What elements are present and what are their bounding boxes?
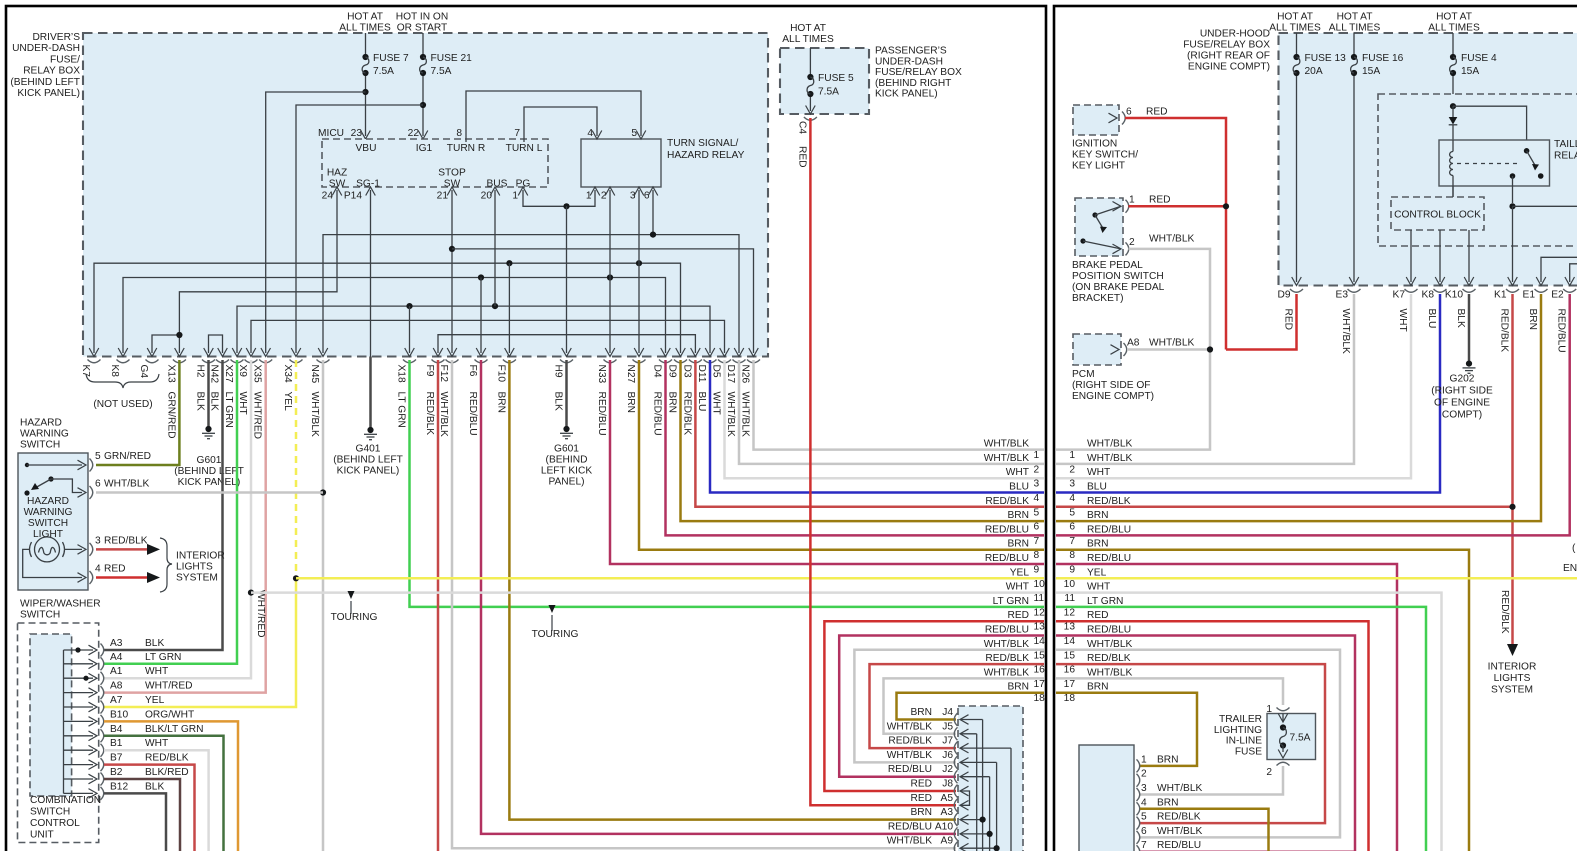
svg-text:J7: J7 bbox=[942, 736, 953, 747]
svg-text:7.5A: 7.5A bbox=[818, 87, 839, 98]
svg-text:N33: N33 bbox=[596, 365, 607, 384]
pin D11 connector bbox=[696, 360, 717, 412]
svg-text:TRAILER: TRAILER bbox=[1219, 714, 1262, 725]
svg-text:A7: A7 bbox=[110, 695, 123, 706]
wire 16 label (left panel) bbox=[985, 653, 1045, 676]
wire 10 YEL to right edge bbox=[296, 577, 1044, 580]
wire F12 WHT/BLK to trailer A9 bbox=[452, 360, 956, 848]
wire N33 RED/BLU to wire 9 bbox=[610, 360, 1044, 564]
wire F6 RED/BLU to trailer A10 bbox=[481, 360, 956, 834]
pin K7 connector bbox=[80, 360, 101, 378]
junction ignition/brake RED bbox=[1223, 203, 1229, 209]
MICU pin 24 HAZ SW bbox=[322, 168, 348, 202]
trailer lighting in-line fuse bbox=[1214, 704, 1316, 778]
svg-text:18: 18 bbox=[1064, 693, 1076, 704]
wire 16 RED/BLK to trailer J7 bbox=[870, 664, 1045, 748]
hazard warning switch light label bbox=[24, 496, 73, 540]
svg-text:ALL TIMES: ALL TIMES bbox=[782, 34, 834, 45]
svg-text:BRN: BRN bbox=[1157, 797, 1179, 808]
wire B7 RED/BLK down bbox=[104, 765, 195, 851]
wire 9 label (left panel) bbox=[985, 553, 1040, 576]
svg-text:X13: X13 bbox=[165, 365, 176, 383]
svg-text:WHT/BLK: WHT/BLK bbox=[1149, 338, 1194, 349]
wire E1 BRN to wire 6 bbox=[1056, 294, 1541, 521]
svg-text:IN-LINE: IN-LINE bbox=[1226, 736, 1262, 747]
svg-text:RED/BLK: RED/BLK bbox=[424, 392, 435, 436]
PCM box bbox=[1072, 334, 1194, 402]
svg-text:WHT/BLK: WHT/BLK bbox=[887, 836, 932, 847]
relay pin 4 bbox=[587, 128, 601, 139]
svg-text:WHT/BLK: WHT/BLK bbox=[1157, 826, 1202, 837]
svg-text:WHT/BLK: WHT/BLK bbox=[984, 639, 1029, 650]
svg-text:HOT AT: HOT AT bbox=[1277, 12, 1313, 23]
pin C4 connector bbox=[797, 117, 817, 168]
svg-text:X34: X34 bbox=[282, 365, 293, 383]
MICU pin 8 TURN R bbox=[447, 128, 485, 154]
svg-text:HOT IN ON: HOT IN ON bbox=[396, 12, 448, 23]
svg-text:BLK: BLK bbox=[145, 638, 164, 649]
svg-text:FUSE 13: FUSE 13 bbox=[1305, 53, 1347, 64]
wiper/washer switch bbox=[18, 599, 101, 843]
wire B1 WHT down bbox=[104, 750, 209, 851]
fuse 7 7.5A bbox=[361, 33, 409, 139]
wire 14 label (right panel) bbox=[1064, 625, 1132, 648]
svg-text:CONTROL: CONTROL bbox=[30, 818, 80, 829]
svg-text:J5: J5 bbox=[942, 721, 953, 732]
bus line D (K8-F6-N33-D4) bbox=[118, 190, 670, 357]
connector pin 1 bbox=[1137, 754, 1179, 772]
svg-text:OR START: OR START bbox=[397, 23, 448, 34]
trailer pin J4 BRN bbox=[910, 707, 957, 726]
svg-text:B10: B10 bbox=[110, 709, 128, 720]
svg-text:BRN: BRN bbox=[625, 392, 636, 414]
wire 4 label (right panel) bbox=[1069, 482, 1107, 505]
svg-text:BLK: BLK bbox=[195, 392, 206, 411]
svg-text:RED/BLU: RED/BLU bbox=[1157, 840, 1201, 851]
pin K10 connector bbox=[1445, 289, 1476, 328]
svg-text:KICK PANEL): KICK PANEL) bbox=[17, 88, 80, 99]
svg-text:GRN/RED: GRN/RED bbox=[104, 451, 151, 462]
svg-text:20: 20 bbox=[481, 191, 493, 202]
svg-text:D17: D17 bbox=[725, 365, 736, 384]
svg-text:ENGINE COMPT): ENGINE COMPT) bbox=[1188, 62, 1270, 73]
HOT IN ON OR START label (fuse 21) bbox=[396, 12, 448, 34]
wire 15 label (left panel) bbox=[984, 639, 1045, 662]
wire B2 BLK/RED down bbox=[104, 779, 180, 851]
wire fuse4 to relay switch bbox=[1453, 106, 1527, 151]
svg-text:KEY SWITCH/: KEY SWITCH/ bbox=[1072, 150, 1138, 161]
svg-text:17: 17 bbox=[1064, 679, 1076, 690]
svg-text:WHT/BLK: WHT/BLK bbox=[984, 439, 1029, 450]
wire H9 BLK to G601 bbox=[565, 360, 568, 429]
relay pin 2 bbox=[601, 187, 615, 202]
connector pin 6 bbox=[1137, 826, 1203, 844]
pin X35 connector bbox=[252, 360, 273, 440]
wire 10 YEL across bbox=[1056, 577, 1577, 580]
wire 11 label (right panel) bbox=[1064, 582, 1110, 605]
wire 18 BRN to connector pin 1 bbox=[1056, 693, 1197, 766]
trailer pin A9 WHT/BLK bbox=[887, 836, 958, 851]
control block pin K8 drop bbox=[1435, 230, 1445, 286]
interior lights system label (right) bbox=[1488, 662, 1537, 696]
wire H9 drop bbox=[562, 206, 572, 356]
svg-text:1: 1 bbox=[512, 191, 518, 202]
wire 17 WHT/BLK to trailer J5 bbox=[884, 678, 1045, 733]
trailer pin J5 WHT/BLK bbox=[887, 721, 958, 740]
svg-text:K7: K7 bbox=[1393, 290, 1406, 301]
wire N45 WHT/BLK down off page bbox=[322, 360, 325, 851]
wire E2 RED/BLU to wire 7 bbox=[1056, 294, 1570, 535]
svg-text:WHT: WHT bbox=[145, 666, 168, 677]
wire 17 label (right panel) bbox=[1064, 667, 1133, 690]
svg-text:9: 9 bbox=[1069, 565, 1075, 576]
wire 9 RED/BLU down off page bbox=[1056, 564, 1397, 851]
wire 15 label (right panel) bbox=[1064, 639, 1133, 662]
svg-text:B12: B12 bbox=[110, 781, 128, 792]
pin K7 connector bbox=[1393, 289, 1418, 332]
trailer pin name J7 bbox=[942, 736, 953, 747]
wire 14 label (left panel) bbox=[985, 625, 1045, 648]
hazard warning switch S1 bbox=[18, 418, 88, 591]
svg-text:A4: A4 bbox=[110, 652, 123, 663]
svg-text:RED/BLU: RED/BLU bbox=[985, 625, 1029, 636]
svg-text:FUSE/RELAY BOX: FUSE/RELAY BOX bbox=[1183, 40, 1270, 51]
svg-text:RED/BLU: RED/BLU bbox=[1556, 309, 1567, 353]
svg-text:N45: N45 bbox=[309, 365, 320, 384]
trailer lighting connector box (left panel) bbox=[958, 706, 1023, 851]
pin N26 connector bbox=[740, 360, 761, 437]
svg-text:3: 3 bbox=[1141, 783, 1147, 794]
svg-text:7: 7 bbox=[514, 128, 520, 139]
wire 11 label (left panel) bbox=[1006, 582, 1045, 605]
wire E2 from right edge bbox=[1565, 264, 1577, 286]
relay pin 5 bbox=[631, 128, 645, 139]
svg-text:J2: J2 bbox=[942, 764, 953, 775]
control block pin K10 drop bbox=[1464, 230, 1474, 286]
svg-text:RED/BLK: RED/BLK bbox=[1087, 496, 1131, 507]
MICU pin 7 TURN L bbox=[506, 128, 543, 154]
svg-text:A10: A10 bbox=[935, 821, 953, 832]
MICU box bbox=[318, 128, 548, 187]
svg-text:WHT/BLK: WHT/BLK bbox=[1087, 667, 1132, 678]
svg-text:BLU: BLU bbox=[1087, 482, 1107, 493]
svg-text:RED/BLK: RED/BLK bbox=[145, 753, 189, 764]
svg-text:K1: K1 bbox=[1494, 290, 1507, 301]
brake pedal position switch bbox=[1072, 195, 1194, 305]
svg-text:A5: A5 bbox=[941, 793, 954, 804]
wire 15 WHT/BLK to connector pin 6 bbox=[1056, 650, 1340, 838]
svg-text:16: 16 bbox=[1064, 665, 1076, 676]
wire E3 WHT/BLK to wire 2 bbox=[1056, 294, 1354, 464]
pin N27 connector bbox=[625, 360, 646, 414]
svg-text:LT GRN: LT GRN bbox=[993, 596, 1029, 607]
wire 12 LT GRN down off page bbox=[1056, 607, 1426, 851]
svg-text:HOT AT: HOT AT bbox=[1436, 12, 1472, 23]
svg-text:BLK: BLK bbox=[209, 392, 220, 411]
wire 17 label (left panel) bbox=[984, 667, 1045, 690]
under-hood fuse/relay box bbox=[1279, 33, 1577, 286]
svg-text:SWITCH: SWITCH bbox=[20, 440, 60, 451]
svg-text:WIPER/WASHER: WIPER/WASHER bbox=[20, 599, 101, 610]
wire 18 BRN to trailer J4 bbox=[897, 693, 1045, 720]
svg-text:RED: RED bbox=[1007, 610, 1029, 621]
svg-text:INTERIOR: INTERIOR bbox=[1488, 662, 1537, 673]
HOT AT ALL TIMES (fuse 4) bbox=[1428, 12, 1480, 34]
ground G601 (H9) bbox=[541, 426, 593, 488]
pin F9 connector bbox=[424, 360, 445, 436]
HOT AT ALL TIMES (fuse 13) bbox=[1269, 12, 1321, 34]
wire 16 label (right panel) bbox=[1064, 653, 1131, 676]
svg-text:RED/BLU: RED/BLU bbox=[1087, 524, 1131, 535]
svg-text:LIGHTS: LIGHTS bbox=[176, 562, 213, 573]
svg-text:3: 3 bbox=[95, 535, 101, 546]
svg-text:(BEHIND: (BEHIND bbox=[546, 455, 588, 466]
svg-text:WHT/BLK: WHT/BLK bbox=[984, 667, 1029, 678]
pin F10 connector bbox=[495, 360, 516, 414]
svg-text:VBU: VBU bbox=[356, 143, 377, 154]
svg-text:RED/BLU: RED/BLU bbox=[888, 764, 932, 775]
svg-text:2: 2 bbox=[1034, 464, 1040, 475]
pin D9 connector bbox=[1277, 289, 1303, 330]
svg-text:(RIGHT SIDE OF: (RIGHT SIDE OF bbox=[1072, 380, 1151, 391]
wire X35 WHT/RED to wiper A8 bbox=[104, 360, 266, 693]
svg-text:A3: A3 bbox=[110, 638, 123, 649]
svg-text:4: 4 bbox=[1034, 493, 1040, 504]
svg-text:G202: G202 bbox=[1450, 374, 1475, 385]
svg-text:WARNING: WARNING bbox=[24, 507, 73, 518]
svg-text:10: 10 bbox=[1064, 579, 1076, 590]
svg-text:(BEHIND LEFT: (BEHIND LEFT bbox=[10, 77, 80, 88]
trailer pin name A3 bbox=[941, 807, 954, 818]
svg-text:2: 2 bbox=[601, 191, 607, 202]
svg-text:A8: A8 bbox=[1127, 338, 1140, 349]
svg-text:LIGHTS: LIGHTS bbox=[1494, 673, 1531, 684]
svg-text:6: 6 bbox=[1034, 522, 1040, 533]
svg-text:BRN: BRN bbox=[1157, 754, 1179, 765]
trailer pin A10 RED/BLU bbox=[888, 821, 958, 840]
svg-text:BRN: BRN bbox=[1087, 682, 1109, 693]
svg-text:ALL TIMES: ALL TIMES bbox=[1329, 23, 1381, 34]
svg-text:A8: A8 bbox=[110, 681, 123, 692]
wire 7 label (left panel) bbox=[985, 524, 1040, 547]
svg-text:2: 2 bbox=[1141, 769, 1147, 780]
svg-text:D4: D4 bbox=[652, 365, 663, 378]
wire E1 from right edge bbox=[1536, 257, 1577, 285]
svg-text:E3: E3 bbox=[1336, 290, 1349, 301]
wire D11 BLU to wire 4 bbox=[710, 360, 1044, 493]
driver's under-dash fuse/relay box bbox=[83, 33, 768, 357]
svg-text:SYSTEM: SYSTEM bbox=[176, 573, 218, 584]
svg-text:J4: J4 bbox=[942, 707, 953, 718]
svg-text:WHT/BLK: WHT/BLK bbox=[104, 479, 149, 490]
wire 8 label (left panel) bbox=[1007, 539, 1039, 562]
svg-text:SWITCH: SWITCH bbox=[28, 518, 68, 529]
fuse 5 7.5A bbox=[806, 48, 854, 114]
svg-text:24: 24 bbox=[322, 191, 334, 202]
svg-text:HAZARD: HAZARD bbox=[20, 418, 62, 429]
svg-text:(BEHIND LEFT: (BEHIND LEFT bbox=[333, 455, 403, 466]
svg-text:J6: J6 bbox=[942, 750, 953, 761]
svg-text:12: 12 bbox=[1064, 607, 1076, 618]
svg-text:LIGHTING: LIGHTING bbox=[1214, 725, 1262, 736]
trailer pin name J5 bbox=[942, 721, 953, 732]
svg-text:E2: E2 bbox=[1551, 290, 1564, 301]
svg-text:15: 15 bbox=[1034, 650, 1046, 661]
pin H2 connector bbox=[195, 360, 216, 411]
wire 10 label (right panel) bbox=[1064, 567, 1107, 590]
trailer pin name J2 bbox=[942, 764, 953, 775]
svg-text:TURN SIGNAL/: TURN SIGNAL/ bbox=[667, 138, 738, 149]
svg-text:RED/BLU: RED/BLU bbox=[596, 392, 607, 436]
wire 13 RED down off page bbox=[1056, 621, 1369, 851]
svg-text:8: 8 bbox=[456, 128, 462, 139]
svg-text:WHT/BLK: WHT/BLK bbox=[887, 750, 932, 761]
wire 15 WHT/BLK to trailer J6 bbox=[854, 650, 1044, 763]
svg-text:F10: F10 bbox=[495, 365, 506, 383]
trailer pin name J4 bbox=[942, 707, 953, 718]
svg-text:PCM: PCM bbox=[1072, 369, 1095, 380]
G4 stub to X13 bbox=[147, 332, 182, 357]
svg-text:(RIGHT SIDE: (RIGHT SIDE bbox=[1431, 386, 1493, 397]
svg-text:YEL: YEL bbox=[1087, 567, 1107, 578]
svg-text:WHT/BLK: WHT/BLK bbox=[1340, 309, 1351, 354]
relay switch bbox=[1510, 148, 1544, 203]
trailer connector internal wiring bbox=[960, 715, 1011, 851]
wire 6 label (right panel) bbox=[1069, 510, 1108, 533]
taillight relay box bbox=[1439, 139, 1577, 186]
svg-text:RED/BLU: RED/BLU bbox=[1087, 553, 1131, 564]
svg-text:BRN: BRN bbox=[1007, 682, 1029, 693]
svg-text:3: 3 bbox=[1034, 479, 1040, 490]
svg-text:G601: G601 bbox=[554, 444, 579, 455]
wire 11 WHT down off page bbox=[1056, 593, 1442, 851]
svg-text:TOURING: TOURING bbox=[532, 629, 579, 640]
left panel frame bbox=[6, 6, 1046, 851]
wiper pin A7 YEL bbox=[101, 695, 165, 714]
wire N26 WHT/BLK to wire 1 bbox=[754, 360, 1045, 450]
svg-text:N26: N26 bbox=[740, 365, 751, 384]
svg-text:HOT AT: HOT AT bbox=[347, 12, 383, 23]
svg-text:X35: X35 bbox=[252, 365, 263, 383]
svg-text:A3: A3 bbox=[941, 807, 954, 818]
under-hood box label bbox=[1183, 29, 1270, 73]
svg-text:9: 9 bbox=[1034, 565, 1040, 576]
svg-text:1: 1 bbox=[1129, 195, 1135, 206]
svg-text:4: 4 bbox=[1141, 797, 1147, 808]
wire 18 label (right panel) bbox=[1064, 682, 1109, 705]
svg-text:F9: F9 bbox=[424, 365, 435, 377]
svg-text:HAZARD RELAY: HAZARD RELAY bbox=[667, 150, 745, 161]
svg-text:RELAY BOX: RELAY BOX bbox=[23, 66, 80, 77]
svg-text:WHT/BLK: WHT/BLK bbox=[1087, 639, 1132, 650]
svg-text:11: 11 bbox=[1034, 593, 1045, 604]
svg-text:RED/BLK: RED/BLK bbox=[1499, 590, 1510, 634]
svg-text:H2: H2 bbox=[195, 365, 206, 378]
svg-text:A9: A9 bbox=[941, 836, 954, 847]
svg-text:RED: RED bbox=[797, 146, 808, 168]
svg-text:YEL: YEL bbox=[145, 695, 165, 706]
trailer pin A3 BRN bbox=[910, 807, 957, 826]
svg-text:BLK: BLK bbox=[145, 781, 164, 792]
svg-text:(BEHIND RIGHT: (BEHIND RIGHT bbox=[875, 78, 951, 89]
wire 18 label (left panel) bbox=[1007, 682, 1045, 705]
svg-text:RED: RED bbox=[104, 564, 126, 575]
svg-text:WHT: WHT bbox=[237, 392, 248, 415]
svg-text:23: 23 bbox=[351, 128, 363, 139]
junction fuse4 node bbox=[1450, 103, 1456, 109]
wire MICU pin7 to relay pin4 bbox=[524, 107, 597, 142]
svg-text:RED/BLU: RED/BLU bbox=[467, 392, 478, 436]
svg-text:CONTROL BLOCK: CONTROL BLOCK bbox=[1394, 210, 1481, 221]
trailer pin name J6 bbox=[942, 750, 953, 761]
svg-text:BLK/LT GRN: BLK/LT GRN bbox=[145, 724, 204, 735]
trailer pin name A5 bbox=[941, 793, 954, 804]
combination switch control unit bbox=[30, 634, 101, 841]
svg-text:RED/BLK: RED/BLK bbox=[985, 653, 1029, 664]
svg-text:H9: H9 bbox=[553, 365, 564, 378]
svg-text:B2: B2 bbox=[110, 767, 123, 778]
svg-text:ORG/WHT: ORG/WHT bbox=[145, 709, 194, 720]
turn signal/hazard relay U1 bbox=[581, 138, 745, 187]
svg-text:7: 7 bbox=[1141, 840, 1147, 851]
svg-text:SYSTEM: SYSTEM bbox=[1491, 685, 1533, 696]
svg-text:COMPT): COMPT) bbox=[1442, 410, 1482, 421]
wire brake pin2 WHT/BLK to wire 1 bbox=[1056, 249, 1210, 450]
HOT AT ALL TIMES label (fuse 5) bbox=[782, 23, 834, 45]
svg-text:RELAY: RELAY bbox=[1554, 151, 1577, 162]
svg-text:WHT/BLK: WHT/BLK bbox=[438, 392, 449, 437]
svg-text:RED/BLU: RED/BLU bbox=[1087, 625, 1131, 636]
svg-text:ALL TIMES: ALL TIMES bbox=[339, 23, 391, 34]
junction fuse 21 / X34 branch bbox=[420, 102, 426, 108]
wire 9 label (right panel) bbox=[1069, 553, 1131, 576]
svg-text:1: 1 bbox=[1141, 754, 1147, 765]
svg-text:PASSENGER’S: PASSENGER’S bbox=[875, 46, 947, 57]
pin G4 connector bbox=[138, 360, 159, 379]
ground G401 bbox=[333, 427, 403, 477]
svg-text:BRACKET): BRACKET) bbox=[1072, 293, 1124, 304]
svg-text:BRAKE PEDAL: BRAKE PEDAL bbox=[1072, 260, 1143, 271]
bus line A (N45-D17, relay pin6) bbox=[318, 190, 744, 357]
wire connector pin 4 BRN down bbox=[1140, 809, 1269, 851]
svg-text:7.5A: 7.5A bbox=[373, 66, 394, 77]
pin E2 connector bbox=[1551, 289, 1576, 353]
wire F10 BRN to trailer A3 bbox=[509, 360, 956, 820]
wire 4 label (left panel) bbox=[1009, 482, 1039, 505]
wire 5 label (right panel) bbox=[1069, 496, 1130, 519]
svg-text:BRN: BRN bbox=[910, 707, 932, 718]
junction K1 node bbox=[1509, 203, 1515, 209]
wire in-line fuse to connector pin 3 bbox=[1140, 766, 1283, 795]
svg-text:B1: B1 bbox=[110, 738, 123, 749]
svg-text:TOURING: TOURING bbox=[331, 612, 378, 623]
wire MICU pin8 to relay pin5 bbox=[466, 91, 641, 142]
pin K1 connector bbox=[1494, 289, 1519, 352]
(NOT USED) brace bbox=[86, 374, 159, 410]
svg-text:UNDER-DASH: UNDER-DASH bbox=[12, 43, 80, 54]
svg-text:12: 12 bbox=[1034, 607, 1046, 618]
svg-text:BLK: BLK bbox=[553, 392, 564, 411]
wire B12 BLK down bbox=[104, 793, 166, 851]
svg-text:FUSE/RELAY BOX: FUSE/RELAY BOX bbox=[875, 67, 962, 78]
wire K7 WHT to wire 3 bbox=[1056, 294, 1411, 478]
svg-text:GRN/RED: GRN/RED bbox=[165, 392, 176, 439]
wiper pin A4 LT GRN bbox=[101, 652, 182, 671]
svg-text:KICK PANEL): KICK PANEL) bbox=[875, 89, 938, 100]
svg-text:ALL TIMES: ALL TIMES bbox=[1428, 23, 1480, 34]
connector pin 3 bbox=[1137, 783, 1203, 801]
svg-text:22: 22 bbox=[408, 128, 420, 139]
